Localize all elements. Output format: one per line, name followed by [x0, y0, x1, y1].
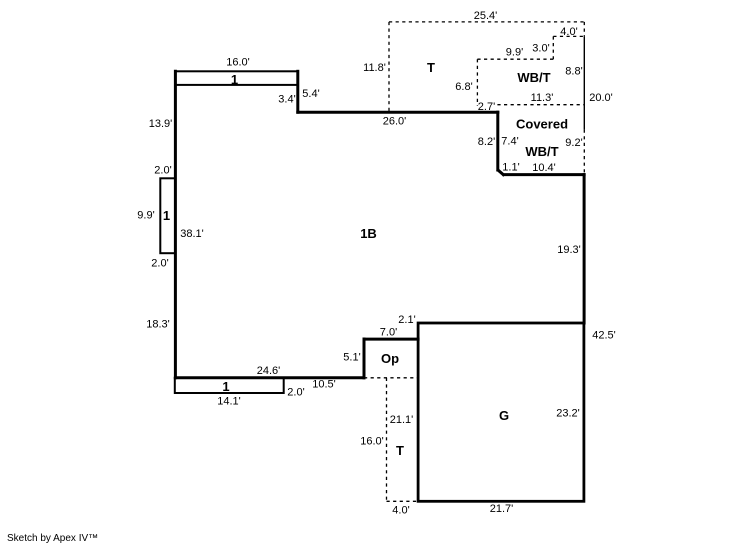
- svg-text:WB/T: WB/T: [517, 70, 550, 85]
- dashed T bottom 4.0': [387, 500, 419, 502]
- thin solid line right edge of WB/T areas: [583, 36, 585, 129]
- svg-text:Op: Op: [381, 351, 399, 366]
- wall left side (42.1 ft): [174, 71, 177, 378]
- svg-text:14.1': 14.1': [217, 396, 241, 408]
- dashed outlines: [364, 22, 584, 501]
- dashed right small top: [583, 22, 585, 37]
- wall right 19.3': [583, 175, 586, 323]
- wall 1.1' chamfer: [498, 170, 503, 174]
- main house outline (thick walls): [175, 71, 584, 378]
- svg-text:Sketch by Apex IV™: Sketch by Apex IV™: [7, 533, 98, 544]
- svg-text:T: T: [427, 60, 435, 75]
- svg-text:1: 1: [231, 72, 238, 87]
- svg-text:8.8': 8.8': [565, 66, 582, 78]
- wall Op top 7.0': [364, 338, 418, 341]
- area labels (bold): [163, 60, 568, 458]
- dashed 9.9': [477, 58, 553, 60]
- svg-text:4.0': 4.0': [392, 505, 409, 517]
- svg-text:25.4': 25.4': [474, 10, 498, 22]
- svg-text:18.3': 18.3': [146, 319, 170, 331]
- svg-text:3.0': 3.0': [532, 43, 549, 55]
- svg-text:11.8': 11.8': [363, 62, 386, 74]
- svg-text:4.0': 4.0': [560, 26, 577, 38]
- svg-text:16.0': 16.0': [226, 57, 250, 69]
- dashed top 25.4': [389, 21, 584, 23]
- wall 8.2' vertical: [496, 112, 499, 170]
- svg-text:16.0': 16.0': [360, 436, 384, 448]
- svg-text:21.1': 21.1': [390, 414, 414, 426]
- svg-text:38.1': 38.1': [180, 228, 204, 240]
- svg-text:WB/T: WB/T: [525, 144, 558, 159]
- svg-text:2.0': 2.0': [154, 165, 171, 177]
- svg-text:1.1': 1.1': [502, 162, 519, 174]
- svg-text:13.9': 13.9': [149, 118, 173, 130]
- wall bottom 24.6': [175, 376, 364, 379]
- svg-text:7.0': 7.0': [380, 327, 397, 339]
- svg-text:1: 1: [163, 208, 170, 223]
- dashed 11.3': [497, 104, 583, 106]
- svg-text:23.2': 23.2': [556, 408, 580, 420]
- svg-text:42.5': 42.5': [592, 330, 616, 342]
- dashed 4.0': [553, 35, 584, 37]
- svg-text:5.4': 5.4': [302, 88, 319, 100]
- svg-text:1: 1: [222, 379, 229, 394]
- wall top step vertical at x=298: [296, 71, 299, 112]
- svg-text:24.6': 24.6': [257, 365, 281, 377]
- wall Op left 5.1': [363, 339, 366, 378]
- porch rect 1 top (16.0 x 2.0): [175, 71, 298, 85]
- wall top 26.0': [298, 111, 498, 114]
- svg-text:2.0': 2.0': [287, 387, 304, 399]
- svg-text:Covered: Covered: [516, 117, 568, 132]
- svg-text:3.4': 3.4': [278, 94, 295, 106]
- svg-text:10.5': 10.5': [312, 379, 336, 391]
- svg-text:G: G: [499, 408, 509, 423]
- svg-text:8.2': 8.2': [478, 136, 495, 148]
- svg-text:20.0': 20.0': [589, 92, 613, 104]
- dashed 9.2' right covered: [583, 130, 585, 175]
- dashed 6.8': [476, 59, 478, 106]
- dimension labels: [137, 10, 615, 517]
- svg-text:11.3': 11.3': [531, 92, 554, 104]
- svg-text:1B: 1B: [360, 226, 377, 241]
- wall 10.4' covered bottom: [504, 173, 584, 176]
- svg-text:T: T: [396, 443, 404, 458]
- svg-text:26.0': 26.0': [383, 116, 407, 128]
- svg-text:2.7': 2.7': [478, 101, 495, 113]
- dashed Op bottom: [364, 377, 418, 379]
- svg-text:9.2': 9.2': [565, 137, 582, 149]
- svg-text:10.4': 10.4': [532, 162, 556, 174]
- dashed 3.0': [552, 36, 554, 59]
- dashed T left 16.0': [386, 378, 388, 502]
- porch rect 1 bottom (14.1 x 2.0): [175, 378, 284, 393]
- garage G outline: [418, 323, 584, 501]
- svg-text:9.9': 9.9': [506, 47, 523, 59]
- svg-text:5.1': 5.1': [343, 352, 360, 364]
- dashed left 11.8': [388, 22, 390, 112]
- svg-text:2.1': 2.1': [398, 314, 415, 326]
- svg-text:7.4': 7.4': [501, 136, 518, 148]
- svg-text:6.8': 6.8': [455, 81, 472, 93]
- svg-text:19.3': 19.3': [557, 244, 581, 256]
- porch rect 1 left (2.0 x 9.9): [160, 178, 175, 253]
- svg-text:9.9': 9.9': [137, 210, 154, 222]
- svg-text:2.0': 2.0': [151, 258, 168, 270]
- svg-text:21.7': 21.7': [490, 503, 514, 515]
